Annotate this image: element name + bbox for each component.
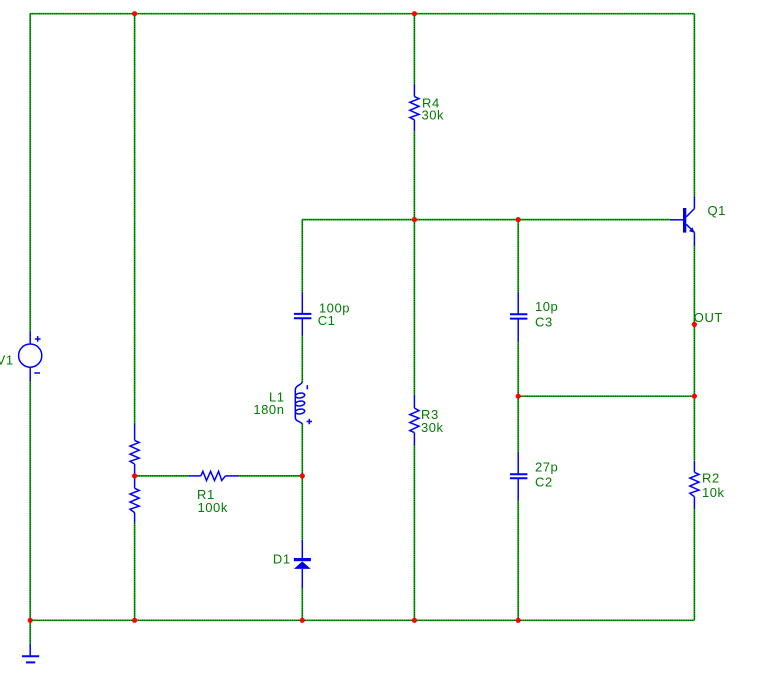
- resistor R1: [189, 471, 238, 480]
- svg-text:R2: R2: [702, 471, 720, 486]
- svg-text:10k: 10k: [702, 485, 725, 500]
- node divider junction: [132, 473, 137, 478]
- svg-text:10p: 10p: [535, 299, 558, 314]
- resistor R2: [690, 461, 699, 509]
- inductor L1: [295, 382, 312, 424]
- wire C1/L1/D1 column x=302: [301, 220, 303, 621]
- wire C3/C2 column x=518: [517, 220, 519, 621]
- svg-text:D1: D1: [273, 552, 291, 567]
- resistor R4: [410, 84, 419, 131]
- svg-text:C3: C3: [535, 314, 553, 329]
- svg-text:OUT: OUT: [694, 310, 723, 325]
- resistor R3: [410, 395, 419, 445]
- node base row C3 junction: [516, 217, 521, 222]
- svg-text:C1: C1: [318, 313, 336, 328]
- wire top rail: [30, 13, 694, 15]
- svg-text:C2: C2: [535, 475, 553, 490]
- wire bias column x=135: [134, 14, 136, 621]
- capacitor C3: [510, 292, 528, 342]
- diode D1: [294, 540, 311, 589]
- node bottom R3 junction: [412, 618, 417, 623]
- node base row R3 junction: [412, 217, 417, 222]
- wire bottom rail: [30, 619, 694, 621]
- node ground junction: [28, 618, 33, 623]
- resistor lower (bias divider): [130, 476, 139, 523]
- wire R1 row y=476: [135, 475, 303, 477]
- capacitor C2: [510, 453, 528, 501]
- capacitor C1: [294, 292, 312, 335]
- node bottom diode junction: [300, 618, 305, 623]
- transistor Q1: [670, 196, 694, 246]
- node bottom C2 junction: [516, 618, 521, 623]
- svg-text:180n: 180n: [253, 402, 284, 417]
- node OUT junction: [692, 322, 697, 327]
- svg-text:30k: 30k: [422, 108, 445, 123]
- wire left rail: [29, 14, 31, 621]
- node feedback right junction: [692, 394, 697, 399]
- svg-text:27p: 27p: [535, 459, 558, 474]
- wire right rail emitter/output: [693, 246, 695, 621]
- node feedback left junction: [516, 394, 521, 399]
- node bottom bias junction: [132, 618, 137, 623]
- ground: [22, 620, 39, 662]
- svg-text:Q1: Q1: [708, 203, 726, 218]
- wire R4/R3 column x=414: [413, 14, 415, 621]
- svg-text:100k: 100k: [198, 500, 228, 515]
- svg-text:V1: V1: [0, 353, 14, 368]
- resistor upper (bias divider): [130, 424, 139, 476]
- wire feedback row y=396: [518, 395, 694, 397]
- wire base row y=219.6: [302, 219, 670, 221]
- voltage source V1: [19, 331, 42, 381]
- node top-left junction: [132, 11, 137, 16]
- svg-text:30k: 30k: [421, 420, 444, 435]
- node R1 right junction: [300, 473, 305, 478]
- wire right rail collector: [693, 14, 695, 196]
- node top R4 junction: [412, 11, 417, 16]
